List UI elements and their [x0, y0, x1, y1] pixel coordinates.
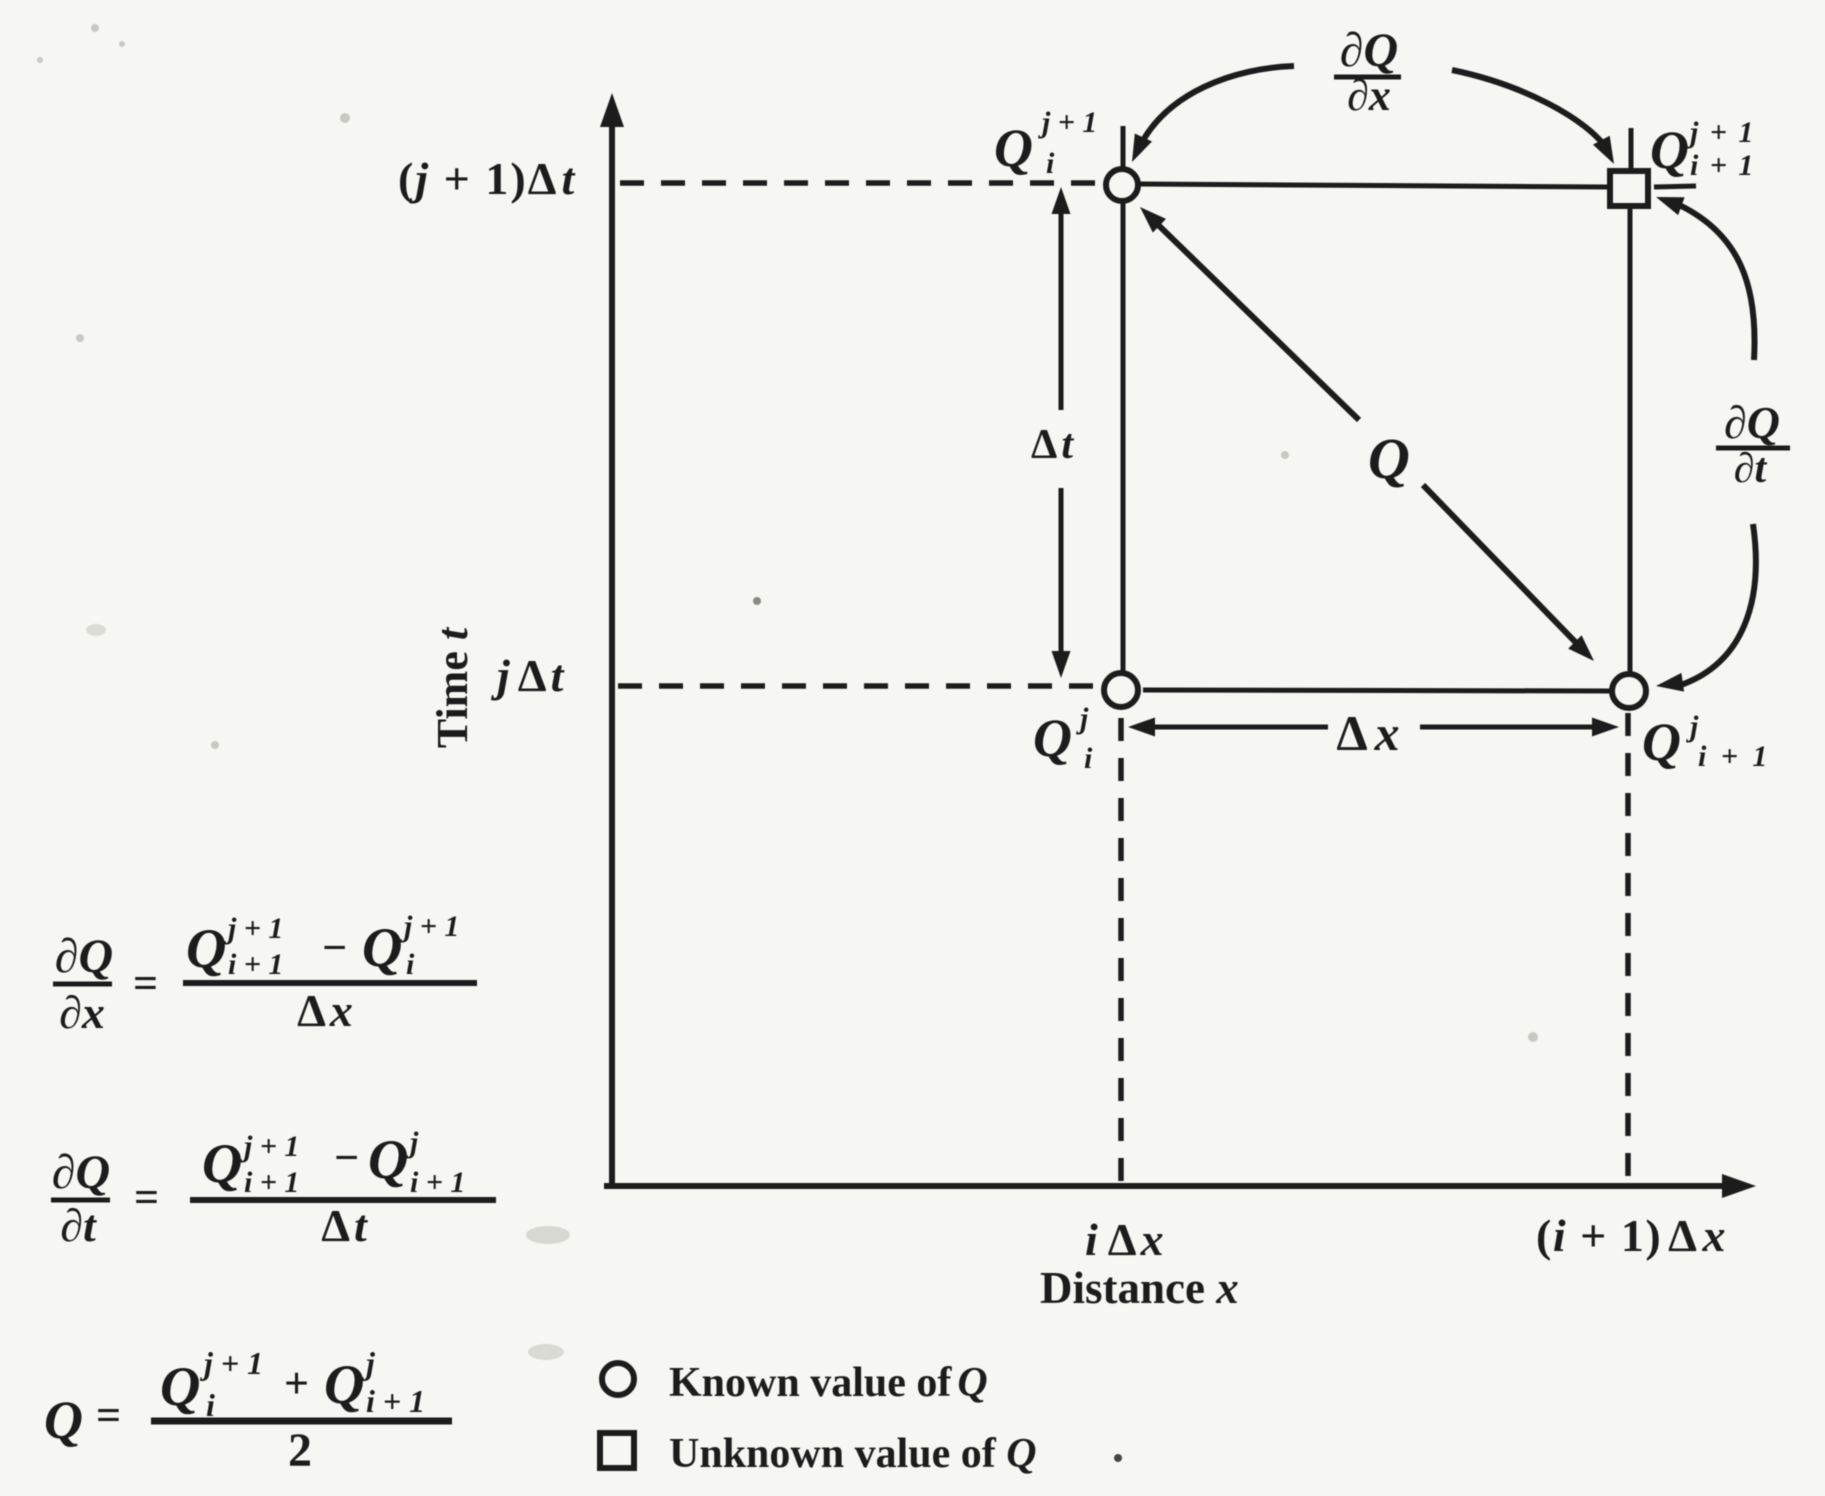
wire right edge: [1628, 208, 1633, 672]
svg-text:∂Q: ∂Q: [52, 1146, 110, 1199]
svg-text:j + 1: j + 1: [224, 912, 283, 945]
equation 1: dQ/dx: [53, 910, 477, 1038]
svg-text:i: i: [1084, 742, 1093, 775]
svg-text:i + 1: i + 1: [410, 1166, 465, 1199]
diagonal Q double arrow: [1133, 200, 1600, 668]
svg-text:−: −: [322, 923, 347, 972]
label Q_(i+1)^(j+1) at square node: [1650, 116, 1755, 182]
svg-text:Q: Q: [368, 1129, 408, 1191]
dQ/dx fraction label: [1334, 24, 1401, 120]
svg-text:Q: Q: [1642, 712, 1681, 772]
svg-text:j + 1: j + 1: [240, 1130, 299, 1163]
legend known circle: [602, 1363, 634, 1395]
svg-text:=: =: [134, 1173, 159, 1222]
svg-text:=: =: [133, 959, 158, 1008]
svg-text:j + 1: j + 1: [400, 910, 459, 943]
node circle bottom-right: [1612, 674, 1646, 708]
svg-text:Time t: Time t: [428, 626, 477, 748]
stub above top-left circle: [1121, 126, 1126, 167]
svg-text:Q: Q: [1368, 426, 1410, 491]
svg-text:Q: Q: [160, 1356, 200, 1418]
svg-text:∂x: ∂x: [1347, 71, 1391, 120]
svg-text:Known value ofQ: Known value ofQ: [669, 1360, 988, 1406]
equation 2: dQ/dt: [51, 1126, 496, 1251]
dashed line (j+1)dt: [620, 180, 1104, 186]
svg-text:iΔx: iΔx: [1085, 1214, 1164, 1265]
svg-text:i + 1: i + 1: [244, 1166, 299, 1199]
dQ/dt upper curved arrow: [1653, 188, 1755, 360]
svg-text:−: −: [334, 1133, 359, 1182]
delta-x double arrow: [1128, 718, 1619, 737]
wire top edge: [1140, 184, 1608, 187]
svg-text:Δt: Δt: [1031, 422, 1074, 468]
svg-text:(j + 1)Δt: (j + 1)Δt: [398, 153, 576, 204]
svg-text:i: i: [1046, 147, 1055, 180]
wire left edge: [1121, 203, 1126, 672]
label Q_(i+1)^j at bottom-right node: [1642, 710, 1771, 773]
svg-text:i: i: [406, 948, 415, 981]
svg-text:=: =: [96, 1391, 121, 1440]
scan specks: [37, 24, 1538, 1360]
svg-text:j + 1: j + 1: [1686, 116, 1755, 149]
dashed line i dx: [1118, 718, 1124, 1184]
svg-text:Q: Q: [1650, 120, 1689, 180]
svg-text:i + 1: i + 1: [366, 1383, 425, 1419]
tick right of square: [1654, 186, 1696, 187]
svg-text:Q: Q: [362, 917, 402, 979]
svg-text:j + 1: j + 1: [199, 1345, 263, 1381]
legend unknown square: [600, 1433, 634, 1468]
svg-text:∂t: ∂t: [60, 1200, 97, 1251]
svg-text:+: +: [284, 1359, 309, 1408]
svg-text:i + 1: i + 1: [1698, 740, 1771, 773]
svg-text:Q: Q: [186, 918, 226, 980]
svg-text:Δt: Δt: [321, 1200, 368, 1251]
dashed line j dt: [618, 683, 1102, 689]
wire bottom edge: [1143, 690, 1610, 691]
dQ/dx right curved arrow: [1452, 70, 1622, 168]
svg-text:(i + 1)Δx: (i + 1)Δx: [1536, 1210, 1727, 1261]
node circle bottom-left: [1104, 673, 1138, 707]
svg-text:∂Q: ∂Q: [1340, 24, 1398, 77]
distance axis (horizontal): [604, 1174, 1756, 1198]
equation 3: Q average: [44, 1345, 452, 1477]
svg-text:Q: Q: [1033, 708, 1072, 768]
node circle top-left: [1106, 169, 1138, 201]
svg-text:jΔt: jΔt: [490, 650, 565, 701]
node square top-right: [1610, 171, 1648, 206]
svg-text:Q: Q: [324, 1354, 364, 1416]
svg-text:∂t: ∂t: [1734, 446, 1768, 492]
stray dot after legend: [1114, 1454, 1122, 1462]
svg-text:Q: Q: [202, 1133, 242, 1195]
dQ/dt lower curved arrow: [1655, 524, 1756, 695]
time axis (vertical): [600, 93, 624, 1186]
svg-text:Distance x: Distance x: [1040, 1263, 1239, 1313]
svg-text:∂Q: ∂Q: [1724, 397, 1780, 448]
svg-text:2: 2: [288, 1424, 312, 1477]
stub above square: [1629, 128, 1634, 170]
svg-text:Q: Q: [994, 118, 1033, 178]
label Q_i^(j+1) at top-left node: [994, 106, 1097, 180]
label Q_i^j at bottom-left node: [1033, 702, 1093, 775]
svg-text:∂x: ∂x: [59, 987, 105, 1038]
svg-text:Unknown value of Q: Unknown value of Q: [669, 1431, 1037, 1477]
dashed line (i+1)dx: [1625, 713, 1631, 1184]
svg-text:i + 1: i + 1: [1690, 149, 1755, 182]
svg-text:Δx: Δx: [297, 985, 353, 1036]
svg-text:∂Q: ∂Q: [55, 930, 113, 983]
grid box solid edges: [1123, 126, 1696, 691]
delta-t double arrow: [1052, 187, 1071, 678]
svg-text:j + 1: j + 1: [1038, 106, 1097, 139]
svg-text:i + 1: i + 1: [228, 948, 283, 981]
dQ/dx left curved arrow: [1123, 66, 1294, 166]
dQ/dt fraction label: [1716, 397, 1790, 492]
svg-text:Q: Q: [44, 1390, 83, 1450]
